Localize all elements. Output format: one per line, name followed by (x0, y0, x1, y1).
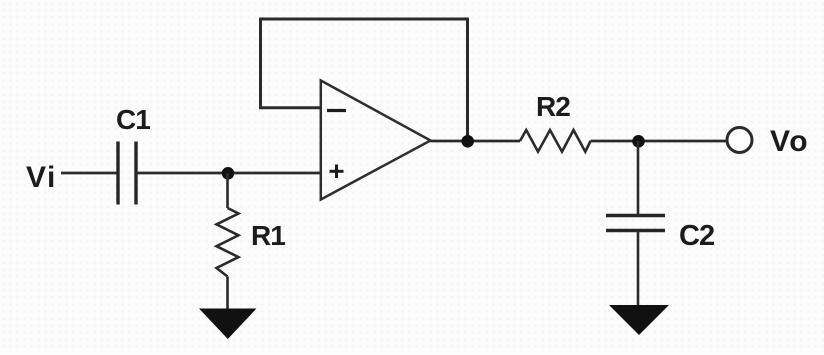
wire C2 to ground (637, 231, 640, 307)
wire C1 to op-amp plus input (136, 172, 321, 175)
capacitor C1 (118, 142, 136, 205)
op-amp U1 inverting pin mark (327, 109, 346, 112)
node B junction dot (op-amp output) (461, 135, 474, 148)
wire op-amp output to R2 (431, 140, 521, 143)
wire node A down to R1 (226, 173, 229, 208)
op-amp U1 body (321, 81, 431, 200)
svg-text:C1: C1 (116, 104, 150, 135)
resistor R2 (520, 130, 591, 152)
terminal Vo circle (727, 128, 752, 153)
wire feedback loop from output node to inverting input (261, 19, 468, 141)
wire R1 to ground (226, 277, 229, 311)
svg-text:C2: C2 (679, 220, 714, 252)
svg-text:Vi: Vi (26, 161, 57, 194)
ground symbol (R1) (199, 309, 257, 340)
wire Vi to C1 (61, 172, 118, 175)
resistor R1 (217, 208, 239, 277)
svg-text:R2: R2 (536, 91, 570, 122)
capacitor C2 (606, 216, 665, 231)
svg-text:R1: R1 (251, 220, 285, 251)
node C junction dot (632, 135, 645, 148)
wire node C down to C2 (637, 141, 640, 215)
wire R2 to Vo terminal (591, 140, 728, 143)
svg-text:Vo: Vo (770, 125, 809, 158)
ground symbol (C2) (609, 305, 669, 335)
op-amp U1 non-inverting pin mark (330, 165, 344, 179)
node A junction dot (222, 167, 235, 180)
